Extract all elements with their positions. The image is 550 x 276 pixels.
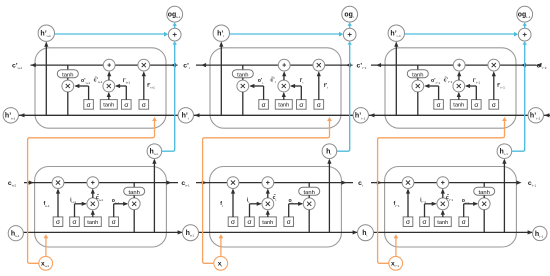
tanh gate box c-tilde (bottom cell 2): [259, 210, 276, 227]
label c_t+2 (far left): [8, 180, 16, 188]
svg-text:ogt: ogt: [344, 12, 353, 20]
node og_t+1 output circle (column 1): [167, 6, 183, 22]
sigma gate o' (top cell 2): [249, 84, 268, 109]
multiply node X output (bottom cell 1): [128, 195, 140, 232]
wire h' output tap up to node (top cell 2): [219, 42, 223, 116]
node h_t+1 output circle (bottom cell 1): [147, 144, 162, 159]
sigma gate o (bottom cell 3): [459, 202, 478, 227]
label c'_t-1 (gap 2): [356, 62, 366, 70]
orange wire x up to backward cell (column 3): [378, 117, 507, 263]
svg-text:tanh: tanh: [304, 190, 315, 196]
label o_t−1 (bottom cell 3): [462, 198, 470, 205]
plus node combining h and h' (column 3): [518, 28, 531, 41]
svg-text:tanh: tanh: [437, 220, 448, 226]
svg-text:tanh: tanh: [278, 103, 289, 109]
label c'_t-2 (far right): [536, 62, 546, 70]
orange arrow x into h line (bottom cell 2): [219, 234, 224, 256]
svg-text:tanh: tanh: [129, 190, 140, 196]
sigma gate o (bottom cell 2): [284, 202, 303, 227]
cyan arrow plus to og (column 2): [348, 22, 352, 28]
node h_t+1 circle (bottom row position 1): [183, 225, 199, 241]
label c-tilde_t (bottom cell 2): [273, 194, 277, 202]
label c-tilde_t+1 (bottom cell 1): [96, 194, 104, 202]
wire c cell-state line (bottom cell 1): [24, 182, 178, 184]
node h'_t−1 circle (top row position 2): [353, 108, 368, 123]
multiply node X forget on c' line (top cell 2): [313, 59, 325, 71]
tanh gate box c-tilde (top cell 3): [450, 92, 467, 109]
multiply node X input (bottom cell 3): [437, 189, 449, 210]
wire h' recurrent line (top cell 2): [194, 113, 353, 117]
arrowhead c' flow left (top cell 3): [376, 63, 526, 67]
label i_t−1 (bottom cell 3): [420, 198, 426, 205]
svg-text:h’t: h’t: [182, 113, 189, 121]
forward LSTM cell box U5 (bottom row): [210, 167, 342, 248]
tanh gate box c-tilde (bottom cell 1): [84, 210, 101, 227]
sigma gate o' (top cell 1): [74, 84, 93, 109]
input node x_t−1 circle (column 3): [389, 256, 403, 270]
sigma gate o' (top cell 3): [424, 84, 443, 109]
multiply node X input (top cell 2): [278, 71, 290, 92]
arrowhead c' flow left (top cell 2): [201, 63, 351, 67]
arrowhead c flow right (bottom cell 3): [377, 181, 522, 185]
node h_t output circle (bottom cell 2): [322, 144, 337, 159]
forward LSTM cell box U4 (bottom row): [35, 167, 167, 248]
label i'_t (top cell 2): [300, 78, 304, 85]
node h'_t output circle (top cell 2): [213, 25, 229, 41]
label o'_t−1 (top cell 3): [431, 78, 440, 85]
label f'_t−1 (top cell 3): [497, 83, 505, 90]
arrowhead c' flow left (top cell 1): [31, 63, 176, 67]
tanh gate box c-tilde (top cell 1): [100, 92, 117, 109]
sigma gate f (bottom cell 2): [228, 189, 238, 227]
svg-text:tanh: tanh: [62, 72, 73, 78]
tanh pill (top cell 2): [232, 65, 253, 78]
label c-tilde'_t (top cell 2): [270, 76, 275, 84]
label o_t (bottom cell 2): [288, 198, 292, 205]
cyan wire h to plus (column 2): [337, 41, 352, 151]
orange arrow x into h line (bottom cell 1): [44, 234, 49, 256]
node h_t circle (bottom row position 2): [358, 225, 374, 241]
arrowhead c flow right (bottom cell 2): [202, 181, 347, 185]
svg-text:tanh: tanh: [237, 72, 248, 78]
node h_t−1 output circle (bottom cell 3): [497, 144, 512, 159]
orange wire x up to backward cell (column 2): [203, 117, 332, 263]
label i_t (bottom cell 2): [247, 198, 249, 205]
wire h recurrent line (bottom cell 3): [374, 230, 533, 234]
plus node + on c' line (top cell 2): [278, 59, 290, 71]
label c_t+1 (gap 1): [181, 180, 189, 188]
input node x_t circle (column 2): [214, 256, 228, 270]
plus node + on c line (bottom cell 1): [87, 177, 99, 189]
multiply node X input (bottom cell 2): [262, 189, 274, 210]
label o_t+1 (bottom cell 1): [112, 198, 120, 205]
wire c' cell-state line (top cell 2): [196, 64, 353, 66]
node h'_t−1 output circle (top cell 3): [388, 25, 404, 41]
tanh pill (bottom cell 1): [124, 183, 145, 196]
arrowhead c flow right (bottom cell 1): [29, 181, 172, 185]
wire c' cell-state line (top cell 3): [371, 64, 537, 66]
sigma gate f (bottom cell 1): [53, 189, 63, 227]
cyan arrow plus to og (column 3): [523, 22, 527, 28]
input node x_t+1 circle (column 1): [39, 256, 53, 270]
plus node combining h and h' (column 2): [343, 28, 356, 41]
label o'_t (top cell 2): [258, 78, 264, 85]
cyan wire h' to plus (column 2): [230, 32, 344, 37]
wire h' output tap up to node (top cell 3): [394, 42, 398, 116]
label c_t-1 (far right): [528, 180, 536, 188]
label f'_t+1 (top cell 1): [147, 83, 155, 90]
node h'_t+1 output circle (top cell 1): [38, 25, 54, 41]
sigma gate i (bottom cell 2): [245, 202, 262, 227]
cyan arrow plus to og (column 1): [173, 22, 177, 28]
multiply node X input (top cell 3): [453, 71, 465, 92]
sigma gate f' (top cell 2): [314, 71, 324, 109]
plus node combining h and h' (column 1): [168, 28, 181, 41]
cyan wire h to plus (column 1): [162, 41, 177, 151]
svg-text:tanh: tanh: [479, 190, 490, 196]
orange wire x up to backward cell (column 1): [28, 117, 157, 263]
wire h output tap up to node (bottom cell 1): [152, 159, 156, 233]
node h_t+2 circle (bottom row position 0): [8, 226, 23, 241]
plus node + on c' line (top cell 1): [103, 59, 115, 71]
multiply node X output (top cell 2): [237, 78, 249, 116]
svg-text:tanh: tanh: [453, 103, 464, 109]
label c-tilde_t−1 (bottom cell 3): [446, 194, 454, 202]
wire far-right h' entry stub: [544, 113, 550, 117]
sigma gate i' (top cell 1): [115, 84, 131, 109]
label f_t (bottom cell 2): [220, 201, 223, 208]
sigma gate f' (top cell 1): [139, 71, 149, 109]
svg-text:h’t: h’t: [217, 31, 224, 39]
multiply node X forget on c line (bottom cell 1): [52, 177, 64, 189]
multiply node X input (top cell 1): [103, 71, 115, 92]
wire h output tap up to node (bottom cell 3): [502, 159, 506, 233]
multiply node X output (bottom cell 3): [478, 195, 490, 232]
svg-text:tanh: tanh: [87, 220, 98, 226]
wire h' output tap up to node (top cell 1): [44, 42, 48, 116]
node h'_t−2 circle (top row position 3): [528, 108, 543, 123]
sigma gate o (bottom cell 1): [109, 202, 128, 227]
tanh pill (top cell 1): [57, 65, 78, 78]
multiply node X output (bottom cell 2): [303, 195, 315, 232]
sigma gate i (bottom cell 3): [420, 202, 437, 227]
multiply node X forget on c' line (top cell 3): [488, 59, 500, 71]
sigma gate f (bottom cell 3): [403, 189, 413, 227]
arrowheads far right c' entry: [536, 63, 541, 67]
forward LSTM cell box U6 (bottom row): [385, 167, 517, 248]
tanh gate box c-tilde (bottom cell 3): [434, 210, 451, 227]
tanh pill (bottom cell 3): [474, 183, 495, 196]
label f'_t (top cell 2): [324, 83, 328, 90]
orange arrow x into h line (bottom cell 3): [394, 234, 399, 256]
label i_t+1 (bottom cell 1): [70, 198, 76, 205]
svg-text:tanh: tanh: [412, 72, 423, 78]
backward LSTM cell box U3 (top row): [385, 48, 516, 128]
node og_t output circle (column 2): [342, 6, 358, 22]
multiply node X forget on c' line (top cell 1): [138, 59, 150, 71]
node og_t−1 output circle (column 3): [517, 6, 533, 22]
plus node + on c line (bottom cell 2): [262, 177, 274, 189]
multiply node X output (top cell 1): [62, 78, 74, 116]
tanh gate box c-tilde (top cell 2): [275, 92, 292, 109]
label i'_t+1 (top cell 1): [123, 78, 131, 85]
label c'_t (gap 1): [183, 62, 190, 70]
label f_t+1 (bottom cell 1): [43, 201, 49, 208]
sigma gate f' (top cell 3): [489, 71, 499, 109]
wire h recurrent line (bottom cell 1): [24, 230, 183, 234]
cyan wire h' to plus (column 1): [55, 32, 169, 37]
label c-tilde'_t+1 (top cell 1): [94, 76, 103, 84]
svg-text:c’t: c’t: [183, 62, 190, 70]
wire h' recurrent line (top cell 1): [19, 113, 178, 117]
node h_t−1 circle (bottom row position 3): [533, 226, 547, 240]
backward LSTM cell box U2 (top row): [210, 48, 341, 128]
label f_t−1 (bottom cell 3): [393, 201, 399, 208]
svg-text:tanh: tanh: [103, 103, 114, 109]
wire h' recurrent line (top cell 3): [369, 113, 528, 117]
wire c cell-state line (bottom cell 3): [371, 182, 517, 184]
label i'_t−1 (top cell 3): [473, 78, 481, 85]
sigma gate i' (top cell 3): [465, 84, 481, 109]
svg-text:tanh: tanh: [262, 220, 273, 226]
multiply node X forget on c line (bottom cell 2): [227, 177, 239, 189]
label c'_t+1 (far left): [12, 62, 22, 70]
tanh pill (top cell 3): [407, 65, 428, 78]
plus node + on c' line (top cell 3): [453, 59, 465, 71]
sigma gate i' (top cell 2): [290, 84, 306, 109]
cyan wire h to plus (column 3): [512, 41, 527, 151]
label c-tilde'_t−1 (top cell 3): [444, 76, 453, 84]
multiply node X output (top cell 3): [412, 78, 424, 116]
plus node + on c line (bottom cell 3): [437, 177, 449, 189]
node h'_t+1 circle (top row position 0): [3, 108, 18, 123]
backward LSTM cell box U1 (top row): [35, 48, 166, 128]
label o'_t+1 (top cell 1): [81, 78, 90, 85]
wire c cell-state line (bottom cell 2): [196, 182, 353, 184]
label c_t (gap 2): [358, 180, 363, 188]
tanh pill (bottom cell 2): [299, 183, 320, 196]
sigma gate i (bottom cell 1): [70, 202, 87, 227]
wire h recurrent line (bottom cell 2): [199, 230, 358, 234]
multiply node X forget on c line (bottom cell 3): [402, 177, 414, 189]
wire c' cell-state line (top cell 1): [31, 64, 178, 66]
node h'_t circle (top row position 1): [178, 108, 193, 123]
multiply node X input (bottom cell 1): [87, 189, 99, 210]
wire h output tap up to node (bottom cell 2): [327, 159, 331, 233]
cyan wire h' to plus (column 3): [405, 32, 519, 37]
